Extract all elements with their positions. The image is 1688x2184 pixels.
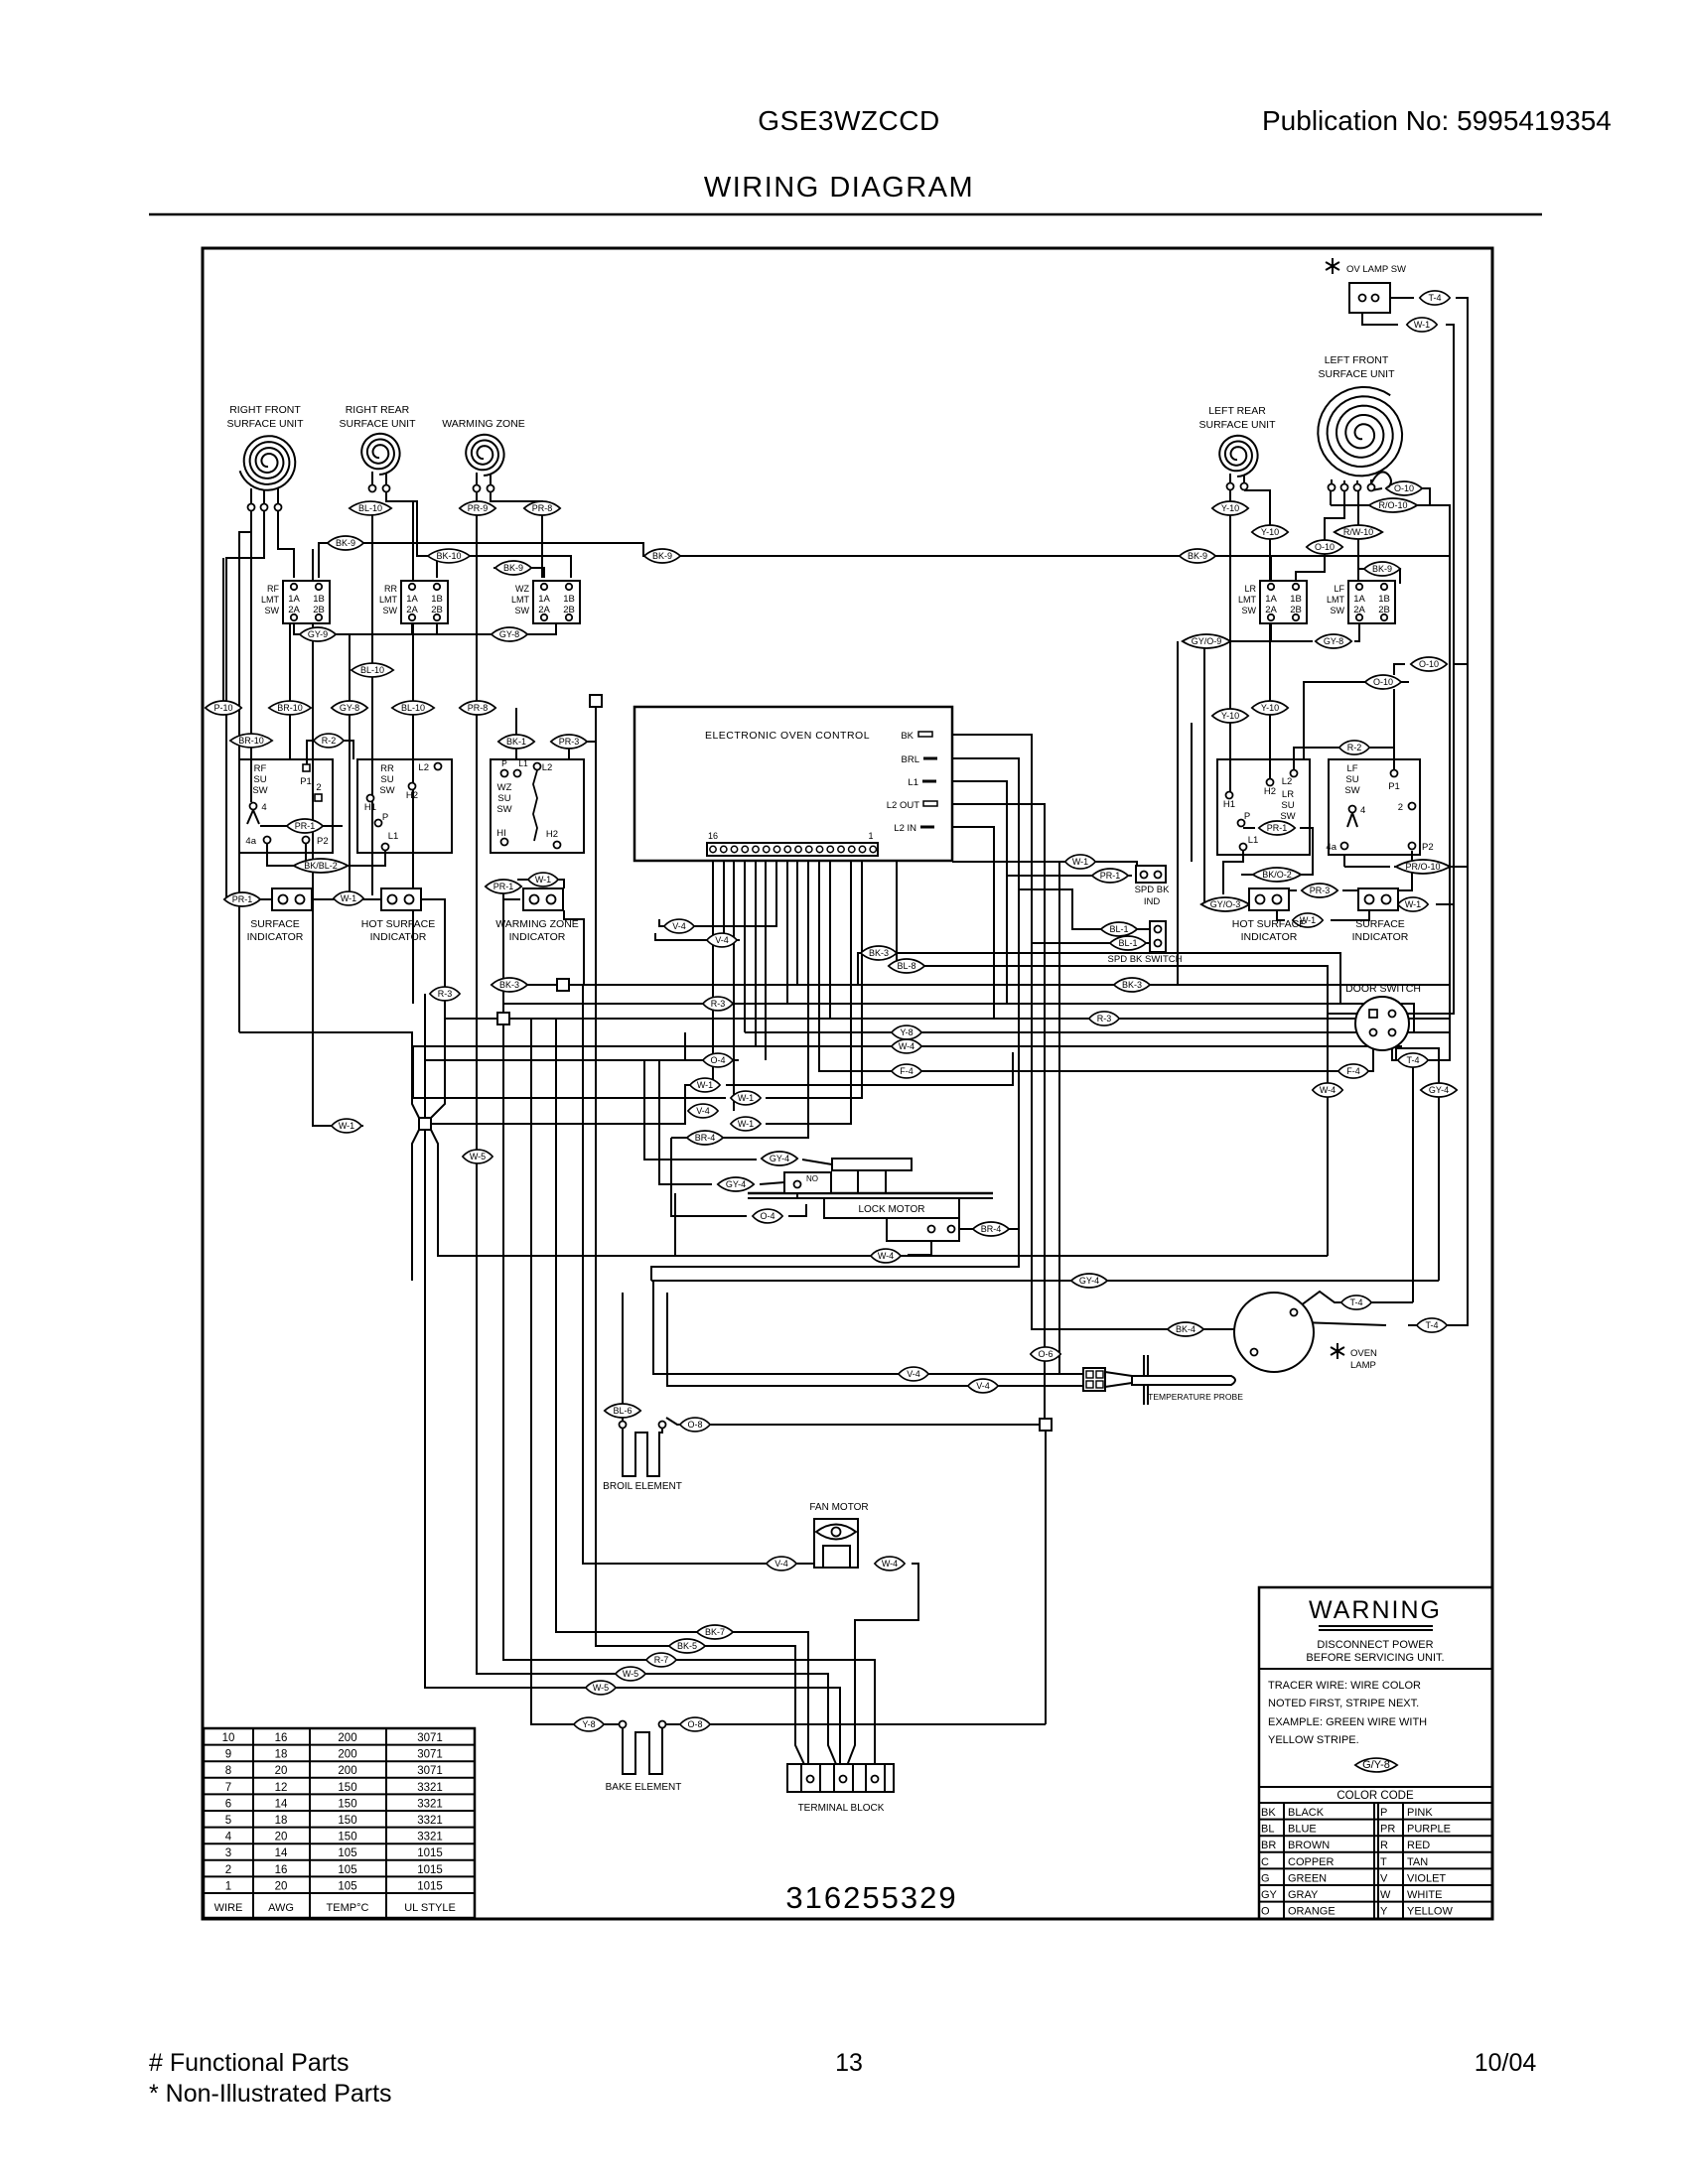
svg-text:LR: LR: [1244, 584, 1256, 594]
wire BKO-2 left: [1241, 874, 1255, 876]
svg-text:2: 2: [316, 782, 321, 793]
wire EOC W-1 out: [952, 862, 1137, 868]
svg-text:GY/O-3: GY/O-3: [1210, 899, 1241, 909]
svg-text:BR-4: BR-4: [695, 1133, 716, 1143]
svg-text:2: 2: [225, 1864, 231, 1876]
wire BK-1 column: [515, 708, 517, 759]
svg-text:BL-1: BL-1: [1109, 924, 1128, 934]
svg-text:L2 IN: L2 IN: [894, 823, 916, 834]
svg-text:O-4: O-4: [710, 1055, 725, 1065]
wire label R-3: [430, 987, 460, 1001]
broil element: [620, 1422, 627, 1429]
wire junction up: [424, 994, 426, 1118]
svg-text:V-4: V-4: [907, 1369, 920, 1379]
svg-text:R-3: R-3: [438, 989, 453, 999]
svg-text:LMT: LMT: [1238, 595, 1257, 605]
wire LR lead B: [1244, 490, 1270, 778]
wire PR-3 drop: [568, 742, 570, 759]
wire PR-3 right: [1277, 890, 1297, 901]
svg-text:RR: RR: [384, 584, 397, 594]
wire PR-3 column: [569, 742, 596, 749]
svg-text:4a: 4a: [245, 836, 256, 847]
svg-text:RIGHT REAR: RIGHT REAR: [346, 404, 410, 416]
svg-text:3321: 3321: [417, 1815, 443, 1827]
wire label W-1: [1293, 913, 1323, 927]
svg-text:V-4: V-4: [976, 1381, 990, 1391]
wire label W-1: [528, 873, 558, 887]
svg-text:L2 OUT: L2 OUT: [887, 800, 919, 811]
wire BL-10 column: [412, 501, 414, 1004]
LR coil terminals: [1229, 474, 1231, 482]
wire BK-10 bus: [427, 556, 571, 578]
svg-text:200: 200: [338, 1749, 356, 1761]
G/Y-8 example oval: [1355, 1758, 1397, 1772]
svg-text:GY-8: GY-8: [499, 629, 519, 639]
wire BR-10 column: [289, 622, 291, 759]
svg-text:R-3: R-3: [711, 999, 726, 1009]
svg-text:150: 150: [338, 1782, 356, 1794]
wire GY-8 right row: [1271, 621, 1313, 641]
svg-text:R-2: R-2: [1347, 743, 1362, 752]
svg-text:H1: H1: [364, 802, 376, 813]
wire EOC t10: [699, 856, 776, 926]
svg-text:14: 14: [275, 1847, 288, 1859]
svg-text:1: 1: [868, 831, 873, 841]
svg-text:BL-10: BL-10: [401, 703, 425, 713]
wire GY-4 b: [659, 1060, 712, 1184]
wire EOC t15: [724, 856, 740, 940]
wire Y-10 col a: [1229, 501, 1231, 515]
svg-text:L2: L2: [1282, 776, 1293, 787]
RF surface unit switch box: [239, 759, 333, 853]
svg-text:5: 5: [225, 1815, 231, 1827]
wire junction diag d: [431, 1130, 1059, 1256]
svg-text:3071: 3071: [417, 1765, 443, 1777]
svg-text:1B: 1B: [1290, 594, 1302, 605]
warming zone indicator lamp: [523, 888, 563, 910]
wire label BL-10: [352, 663, 393, 677]
wire label PR-1: [486, 880, 521, 893]
svg-text:O-10: O-10: [1373, 677, 1393, 687]
wire RR coil lead A: [371, 515, 373, 895]
svg-text:NOTED FIRST, STRIPE NEXT.: NOTED FIRST, STRIPE NEXT.: [1268, 1698, 1419, 1709]
svg-text:W-4: W-4: [882, 1559, 898, 1569]
junction square O-6: [1040, 1419, 1052, 1431]
wire label Y-10: [1212, 709, 1248, 723]
svg-text:13: 13: [835, 2049, 863, 2077]
terminal block: [787, 1764, 894, 1792]
wire label BL-10: [392, 701, 434, 715]
svg-text:20: 20: [275, 1765, 288, 1777]
svg-text:INDICATOR: INDICATOR: [370, 931, 427, 943]
wire GY-4 lm2: [802, 1160, 832, 1164]
wire SPD BL-1 a: [1019, 889, 1150, 929]
svg-text:O: O: [1261, 1906, 1270, 1918]
svg-text:INDICATOR: INDICATOR: [1352, 931, 1409, 943]
warning box: [1259, 1587, 1492, 1919]
svg-text:PR-8: PR-8: [532, 503, 553, 513]
wire label F-4: [1338, 1064, 1368, 1078]
wire wz W-1: [517, 880, 564, 888]
svg-text:WZ: WZ: [515, 584, 529, 594]
svg-text:BRL: BRL: [902, 754, 919, 765]
wire BK-3 main: [569, 953, 1340, 1004]
svg-text:W-5: W-5: [623, 1669, 638, 1679]
wire label Y-8: [574, 1717, 604, 1731]
wire hook from LF coil to O-10: [1371, 472, 1391, 487]
wire GY-4 b2: [760, 1182, 784, 1184]
svg-text:TERMINAL BLOCK: TERMINAL BLOCK: [798, 1803, 885, 1814]
wire label BK-3: [861, 946, 897, 960]
wire label Y-10: [1252, 701, 1288, 715]
wire RF coil lead D: [250, 510, 252, 802]
svg-text:WIRING DIAGRAM: WIRING DIAGRAM: [704, 172, 974, 204]
wire label T-4: [1341, 1296, 1371, 1309]
svg-text:W-1: W-1: [697, 1080, 713, 1090]
wire door sw T-4: [1392, 1014, 1450, 1060]
svg-text:SW: SW: [1331, 606, 1345, 615]
wire door sw GY-4: [1396, 1048, 1439, 1281]
svg-text:1B: 1B: [563, 594, 575, 605]
wire label PR/O-10: [1396, 860, 1451, 874]
svg-text:O-10: O-10: [1419, 659, 1439, 669]
electronic oven control box U1: [634, 707, 952, 861]
svg-text:SU: SU: [1281, 800, 1294, 811]
svg-text:W-1: W-1: [535, 875, 551, 885]
svg-text:GY-4: GY-4: [770, 1154, 789, 1163]
wire label PR-3: [551, 735, 587, 749]
wire GYO-3 row: [1204, 903, 1249, 905]
wire label Y-8: [892, 1025, 921, 1039]
wire BL-6 riser: [622, 1293, 624, 1421]
svg-text:EXAMPLE: GREEN WIRE WITH: EXAMPLE: GREEN WIRE WITH: [1268, 1716, 1427, 1728]
wire EOC t8: [796, 856, 798, 985]
svg-text:O-6: O-6: [1038, 1349, 1053, 1359]
svg-text:BL-1: BL-1: [1118, 938, 1137, 948]
svg-text:RF: RF: [267, 584, 279, 594]
svg-text:BK-9: BK-9: [1188, 551, 1207, 561]
svg-text:LMT: LMT: [261, 595, 280, 605]
svg-text:RF: RF: [254, 763, 267, 774]
svg-text:3321: 3321: [417, 1832, 443, 1843]
wire label BR-10: [230, 734, 272, 748]
svg-text:1015: 1015: [417, 1847, 443, 1859]
wire BK-9 right link: [1358, 569, 1400, 584]
wire label R/O-10: [1369, 498, 1418, 512]
svg-text:SW: SW: [252, 785, 267, 796]
svg-text:V-4: V-4: [696, 1106, 710, 1116]
wire label PR-8: [460, 701, 495, 715]
wire BK-9 bus: [319, 543, 1427, 578]
wire oven lamp T4 b2: [1408, 298, 1468, 1325]
svg-text:3071: 3071: [417, 1732, 443, 1744]
svg-text:20: 20: [275, 1832, 288, 1843]
svg-text:1A: 1A: [288, 594, 300, 605]
WZ surface unit switch box: [491, 759, 584, 853]
wire PRO-10 e: [1344, 866, 1390, 868]
svg-text:BK-3: BK-3: [1122, 980, 1142, 990]
wire label PR-1: [287, 819, 323, 833]
svg-text:150: 150: [338, 1798, 356, 1810]
svg-text:BK-9: BK-9: [336, 538, 355, 548]
wire BR-4 lm: [651, 1229, 1019, 1281]
wire EOC t16: [712, 856, 714, 1085]
wire label BK-9: [644, 549, 680, 563]
svg-text:H1: H1: [1223, 799, 1235, 810]
svg-text:IND: IND: [1144, 896, 1161, 907]
svg-text:1B: 1B: [431, 594, 443, 605]
wire label W-4: [875, 1557, 905, 1570]
wire label BL-8: [889, 959, 924, 973]
wire label PR-1: [1092, 869, 1128, 883]
svg-text:SU: SU: [497, 793, 510, 804]
LF limit switch: [1327, 581, 1395, 623]
wire label W-5: [616, 1667, 645, 1681]
SPD BK IND lamp: [1136, 866, 1166, 883]
wire label BL-1: [1101, 922, 1137, 936]
wire label GY/O-9: [1183, 634, 1231, 648]
wire W-4 row elbow: [413, 1046, 726, 1098]
svg-text:W-1: W-1: [339, 1121, 354, 1131]
wire O-10 right: [1420, 488, 1430, 505]
surface indicator lamp: [272, 888, 312, 910]
svg-text:HOT SURFACE: HOT SURFACE: [361, 918, 435, 930]
svg-text:BLUE: BLUE: [1288, 1824, 1317, 1836]
wire label V-4: [968, 1379, 998, 1393]
svg-text:L1: L1: [388, 831, 399, 842]
svg-text:1B: 1B: [313, 594, 325, 605]
svg-text:W-4: W-4: [878, 1251, 894, 1261]
svg-text:Y-10: Y-10: [1221, 711, 1239, 721]
wire PR-1 right: [1243, 827, 1255, 829]
svg-text:SW: SW: [1344, 785, 1359, 796]
svg-text:VIOLET: VIOLET: [1407, 1872, 1446, 1884]
svg-text:W-5: W-5: [470, 1152, 486, 1161]
svg-text:DOOR SWITCH: DOOR SWITCH: [1345, 983, 1421, 995]
wire BK-10 link: [436, 556, 438, 578]
svg-text:F-4: F-4: [900, 1066, 914, 1076]
svg-text:TAN: TAN: [1407, 1856, 1428, 1868]
svg-text:GY-8: GY-8: [340, 703, 359, 713]
wire WZ coil lead A: [477, 492, 841, 1776]
wire RR coil lead B: [386, 492, 437, 578]
wire LF lead 2: [1296, 490, 1344, 584]
wire EOC t5: [829, 856, 831, 1019]
wire label O-10: [1411, 657, 1447, 671]
wire RF coil lead A: [239, 510, 251, 1032]
wire gauge table: [204, 1728, 475, 1918]
wire O-4 row: [685, 1032, 739, 1060]
wire SPD PR-1: [1007, 875, 1132, 877]
wire EOC L1 out: [936, 781, 1007, 1004]
svg-text:R/W-10: R/W-10: [1343, 527, 1373, 537]
svg-text:BK/O-2: BK/O-2: [1262, 870, 1292, 880]
svg-text:P2: P2: [1422, 842, 1434, 853]
OV LAMP SW asterisk: [1332, 258, 1334, 274]
wire label W-4: [871, 1249, 901, 1263]
svg-text:O-10: O-10: [1394, 483, 1414, 493]
wire W-1 door link b: [1059, 1255, 1328, 1257]
svg-text:T: T: [1380, 1856, 1387, 1868]
wire label O-4: [703, 1053, 733, 1067]
wire PRO-10 c: [1446, 866, 1468, 868]
wire wz ind out: [564, 910, 584, 985]
wire label BL-10: [350, 501, 391, 515]
temperature probe connector: [1083, 1368, 1105, 1391]
svg-text:BK-7: BK-7: [705, 1627, 725, 1637]
svg-text:W-1: W-1: [738, 1093, 754, 1103]
svg-text:WHITE: WHITE: [1407, 1889, 1442, 1901]
svg-text:SPD BK SWITCH: SPD BK SWITCH: [1108, 954, 1183, 965]
wire LR lead A: [1229, 490, 1231, 791]
svg-text:NO: NO: [806, 1174, 818, 1183]
svg-text:GY-4: GY-4: [726, 1179, 746, 1189]
svg-text:PINK: PINK: [1407, 1807, 1433, 1819]
wire F-4 row: [927, 1070, 1336, 1072]
svg-text:T-4: T-4: [1425, 1320, 1438, 1330]
wire label BK-1: [498, 735, 534, 749]
svg-text:O-8: O-8: [687, 1420, 702, 1430]
svg-text:OV LAMP SW: OV LAMP SW: [1346, 264, 1406, 275]
svg-text:WARNING: WARNING: [1309, 1596, 1442, 1624]
svg-text:DISCONNECT POWER: DISCONNECT POWER: [1317, 1639, 1433, 1651]
right rear surface unit coil: [361, 434, 399, 475]
wire O-8 bake: [666, 1723, 1046, 1725]
svg-text:SU: SU: [1345, 774, 1358, 785]
svg-text:SW: SW: [515, 606, 530, 615]
wire right mid vertical b: [1191, 723, 1193, 862]
svg-text:BK: BK: [1261, 1807, 1276, 1819]
wire junction diag b: [431, 985, 445, 1118]
wire W-1 stub: [313, 549, 363, 1126]
svg-text:1A: 1A: [1353, 594, 1365, 605]
svg-text:PR-9: PR-9: [468, 503, 489, 513]
wire PR-3 right2: [1342, 851, 1412, 890]
wire x560 drop: [556, 1019, 808, 1773]
svg-text:SW: SW: [496, 804, 511, 815]
svg-text:18: 18: [275, 1749, 288, 1761]
wire label O-10: [1307, 540, 1342, 554]
wire right mid vertical a: [1177, 641, 1179, 985]
LF surface unit switch box (right side): [1329, 759, 1420, 855]
wire label T-4: [1417, 1318, 1447, 1332]
svg-text:BK-3: BK-3: [869, 948, 889, 958]
svg-text:4: 4: [225, 1832, 232, 1843]
svg-text:F-4: F-4: [1346, 1066, 1360, 1076]
svg-text:GY/O-9: GY/O-9: [1192, 636, 1222, 646]
svg-text:TEMP°C: TEMP°C: [327, 1902, 369, 1914]
wire x535 drop: [531, 1019, 619, 1724]
wire label F-4: [892, 1064, 921, 1078]
svg-text:INDICATOR: INDICATOR: [509, 931, 566, 943]
RR coil terminals: [371, 472, 373, 484]
svg-text:Y: Y: [1380, 1906, 1388, 1918]
svg-text:GSE3WZCCD: GSE3WZCCD: [758, 105, 939, 136]
svg-text:BL-10: BL-10: [360, 665, 384, 675]
title underline: [149, 213, 1542, 216]
wire BK-9 bus right drop: [1427, 556, 1450, 1014]
wire label O-10: [1386, 481, 1422, 495]
svg-text:3071: 3071: [417, 1749, 443, 1761]
svg-text:105: 105: [338, 1880, 356, 1892]
wire LR L1 out: [1223, 851, 1243, 894]
wire PRO-10 d: [1343, 855, 1345, 867]
wire GY-4 right edge: [651, 1280, 1439, 1282]
wire W-4 row: [413, 1045, 1402, 1047]
svg-text:1: 1: [225, 1880, 231, 1892]
wire door T-4 column: [1412, 1060, 1414, 1302]
svg-text:INDICATOR: INDICATOR: [247, 931, 304, 943]
wire EOC L2OUT out: [937, 804, 1045, 1419]
wire LR 1A feed: [1270, 556, 1272, 584]
svg-text:P: P: [501, 758, 507, 768]
wire V-4 a: [659, 919, 699, 926]
wire R-3 upper row: [504, 1004, 1450, 1032]
svg-text:LF: LF: [1334, 584, 1344, 594]
wire Y-8 row: [745, 1031, 1450, 1033]
wire surf ind W-1 out: [1436, 903, 1454, 905]
wire O-6 down: [1045, 1431, 1047, 1724]
junction square B: [557, 979, 569, 991]
svg-text:BK-4: BK-4: [1176, 1324, 1196, 1334]
oven lamp bulb: [1234, 1293, 1314, 1372]
wire R-2 to P1: [307, 741, 353, 764]
svg-text:Y-8: Y-8: [900, 1027, 913, 1037]
svg-text:3321: 3321: [417, 1798, 443, 1810]
wire RF coil lead C: [278, 510, 294, 578]
svg-text:R-2: R-2: [322, 736, 337, 746]
svg-text:HI: HI: [496, 828, 506, 839]
svg-text:BK-10: BK-10: [436, 551, 461, 561]
svg-text:GRAY: GRAY: [1288, 1889, 1319, 1901]
wire EOC t13: [744, 856, 746, 1032]
svg-text:LR: LR: [1282, 789, 1294, 800]
svg-text:SURFACE UNIT: SURFACE UNIT: [1318, 368, 1395, 380]
temperature probe body: [1105, 1372, 1132, 1376]
svg-text:T-4: T-4: [1349, 1297, 1362, 1307]
wire oven lamp T4 b: [1301, 1322, 1386, 1325]
wire GY-4 lm: [644, 1060, 757, 1160]
svg-text:H2: H2: [1264, 786, 1276, 797]
wire LF lead 4: [1371, 488, 1382, 490]
wire label BR-10: [269, 701, 311, 715]
warming zone coil: [466, 435, 503, 476]
svg-text:P1: P1: [300, 776, 312, 787]
oven lamp asterisk and label: [1336, 1343, 1338, 1359]
wire ovsw T-4: [1379, 297, 1414, 299]
svg-text:LF: LF: [1346, 763, 1357, 774]
svg-text:BK-9: BK-9: [652, 551, 672, 561]
wire GY-9 row: [294, 622, 556, 634]
svg-text:1A: 1A: [538, 594, 550, 605]
wire junction center down: [425, 1130, 840, 1773]
svg-text:L1: L1: [908, 777, 918, 788]
wire label BK-10: [428, 549, 470, 563]
wire GYO-3 lamp: [1249, 896, 1260, 904]
svg-text:G/Y-8: G/Y-8: [1362, 1759, 1390, 1771]
door switch body: [1355, 997, 1409, 1050]
svg-text:150: 150: [338, 1832, 356, 1843]
svg-text:PR-3: PR-3: [559, 737, 580, 747]
wire label V-4: [664, 919, 694, 933]
svg-text:BR-10: BR-10: [277, 703, 303, 713]
svg-text:RIGHT FRONT: RIGHT FRONT: [229, 404, 301, 416]
junction square W-1: [419, 1118, 431, 1130]
svg-text:BL: BL: [1261, 1824, 1274, 1836]
svg-text:SPD BK: SPD BK: [1135, 885, 1171, 895]
wire O-4 lm: [671, 1138, 747, 1216]
svg-text:SW: SW: [1280, 811, 1295, 822]
